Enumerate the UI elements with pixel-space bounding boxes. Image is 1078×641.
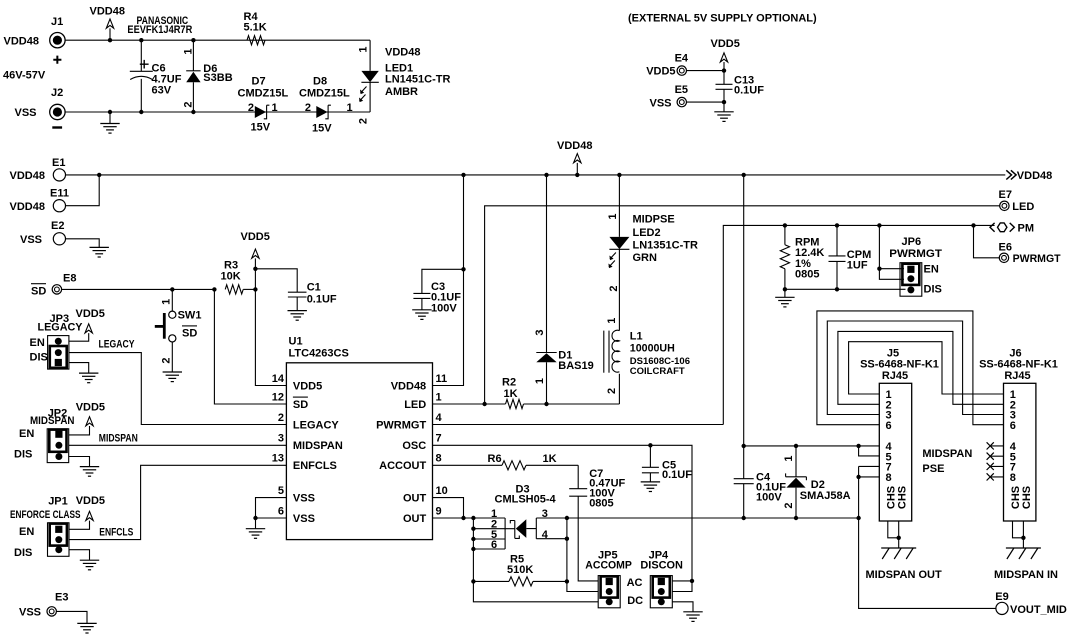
wire E5 to C13 [687, 100, 727, 104]
svg-text:VSS: VSS [20, 234, 42, 246]
svg-text:C1: C1 [307, 281, 321, 293]
wire loop J5 pin1 to J6 pin1 [849, 342, 1004, 394]
svg-text:CMDZ15L: CMDZ15L [299, 88, 350, 100]
power VDD5 arrow JP1 [69, 495, 105, 529]
wire ENFCLS net to U1 pin13 [69, 465, 286, 539]
svg-text:4: 4 [436, 412, 443, 424]
svg-text:PM: PM [1018, 223, 1035, 235]
turret E7 [999, 189, 1035, 213]
svg-text:2: 2 [783, 502, 795, 508]
wire bottom rail J2 to LED1 [65, 111, 370, 113]
svg-text:RJ45: RJ45 [882, 370, 908, 382]
svg-text:9: 9 [436, 505, 442, 517]
svg-text:U1: U1 [289, 336, 303, 348]
svg-text:VDD48: VDD48 [1017, 170, 1052, 182]
svg-text:5.1K: 5.1K [244, 22, 267, 34]
svg-text:3: 3 [278, 433, 284, 445]
svg-text:EN: EN [19, 428, 34, 440]
svg-text:DIS: DIS [30, 351, 48, 363]
svg-text:OUT: OUT [403, 493, 427, 505]
resistor RPM [780, 225, 824, 289]
svg-text:LEGACY: LEGACY [293, 419, 340, 431]
svg-text:E3: E3 [55, 591, 68, 603]
ground below C13 [714, 102, 733, 121]
svg-text:SD: SD [31, 286, 46, 298]
svg-text:1: 1 [534, 378, 546, 384]
capacitor C5 [641, 445, 693, 491]
svg-text:(EXTERNAL 5V SUPPLY OPTIONAL): (EXTERNAL 5V SUPPLY OPTIONAL) [628, 13, 817, 25]
svg-text:6: 6 [491, 539, 497, 551]
svg-text:1: 1 [606, 318, 618, 324]
chassis ground J6 [994, 521, 1058, 581]
ground E3 [56, 611, 96, 633]
svg-text:GRN: GRN [633, 252, 658, 264]
resistor R6 [488, 453, 579, 470]
wire VDD48 main rail [66, 173, 1006, 177]
turret E6 [999, 242, 1061, 265]
svg-text:ACCOMP: ACCOMP [585, 560, 632, 572]
ground JP4 [672, 602, 702, 622]
svg-text:MIDSPAN OUT: MIDSPAN OUT [866, 569, 942, 581]
svg-text:1: 1 [436, 391, 442, 403]
svg-text:COILCRAFT: COILCRAFT [630, 366, 685, 377]
turret E1 [10, 157, 66, 182]
svg-text:VDD5: VDD5 [76, 308, 105, 320]
svg-text:MIDSPAN: MIDSPAN [99, 432, 138, 444]
svg-text:E2: E2 [51, 220, 64, 232]
svg-text:13: 13 [272, 453, 284, 465]
op-amp U1 [272, 336, 448, 540]
wire JP6 EN branch [877, 225, 904, 279]
wire PM rail [723, 223, 994, 424]
svg-text:DISCON: DISCON [640, 560, 683, 572]
svg-text:8: 8 [436, 453, 442, 465]
wire MIDSPAN net to U1 pin3 [69, 432, 287, 445]
svg-text:5: 5 [278, 485, 284, 497]
wire VDD5 to U1 pin14 [255, 289, 286, 385]
svg-text:15V: 15V [251, 122, 271, 134]
jumper JP5 [585, 550, 632, 608]
svg-text:SMAJ58A: SMAJ58A [800, 490, 851, 502]
svg-text:VDD5: VDD5 [646, 66, 675, 78]
svg-text:RJ45: RJ45 [1004, 370, 1030, 382]
turret E9 [995, 591, 1067, 616]
wire U1 pin8 ACCOUT [433, 464, 503, 466]
power VDD5 arrow JP3 [69, 308, 105, 341]
svg-text:2: 2 [305, 102, 311, 114]
svg-text:VDD48: VDD48 [385, 46, 420, 58]
wire U1 pin9 OUT left segment [433, 516, 506, 520]
svg-text:J1: J1 [51, 16, 63, 28]
wire RPM/CPM ground rail to JP6 [783, 287, 906, 291]
turret E4 [646, 52, 689, 77]
diode D3 [471, 483, 598, 601]
wire top rail J1 to LED1 [65, 39, 370, 41]
wire JP4 to OSC net [672, 579, 694, 592]
svg-text:100V: 100V [431, 303, 457, 315]
power VDD5 arrow [711, 38, 740, 70]
wire J5 7/8 to OUT rail and E9 [856, 466, 996, 608]
svg-text:3: 3 [534, 329, 546, 335]
svg-text:1: 1 [347, 102, 353, 114]
svg-text:15V: 15V [312, 123, 332, 135]
svg-text:LTC4263CS: LTC4263CS [289, 347, 349, 359]
power VDD5 arrow above R3 [241, 231, 270, 290]
svg-text:0805: 0805 [589, 497, 613, 509]
svg-text:1UF: 1UF [847, 259, 868, 271]
svg-text:1: 1 [358, 46, 370, 52]
svg-text:EEVFK1J4R7R: EEVFK1J4R7R [127, 24, 192, 36]
svg-text:LED2: LED2 [633, 227, 661, 239]
capacitor C4 [734, 446, 787, 518]
svg-text:1K: 1K [543, 453, 557, 465]
svg-text:CMDZ15L: CMDZ15L [238, 88, 289, 100]
jumper JP2 [14, 407, 75, 462]
svg-text:LEGACY: LEGACY [99, 338, 136, 350]
svg-text:2: 2 [606, 388, 618, 394]
svg-text:SW1: SW1 [178, 310, 202, 322]
power VDD48 arrow top [90, 5, 125, 42]
svg-text:VDD48: VDD48 [90, 5, 125, 17]
svg-text:7: 7 [436, 433, 442, 445]
svg-text:11: 11 [436, 373, 448, 385]
wire U1 VSS pins to ground [253, 498, 286, 521]
capacitor CPM [829, 225, 872, 289]
svg-text:ENFCLS: ENFCLS [99, 526, 133, 538]
svg-text:JP6: JP6 [902, 236, 922, 248]
svg-text:BAS19: BAS19 [558, 360, 593, 372]
svg-text:E5: E5 [675, 84, 688, 96]
wire OUT right rail [567, 516, 861, 520]
chassis ground J5 [866, 521, 942, 581]
svg-text:2: 2 [278, 412, 284, 424]
svg-text:2: 2 [183, 101, 195, 107]
svg-text:R2: R2 [502, 376, 516, 388]
offpage PM connector [990, 223, 1034, 235]
LED LED2 [607, 173, 698, 317]
svg-text:CHS: CHS [1021, 486, 1033, 509]
jumper JP4 [640, 550, 683, 608]
svg-text:1: 1 [161, 299, 173, 305]
ground at J2 rail [100, 110, 119, 133]
label MIDSPAN PSE [922, 448, 972, 475]
resistor R5 [471, 554, 567, 586]
connector J1 [3, 16, 65, 81]
svg-text:LED: LED [404, 399, 426, 411]
svg-text:10: 10 [436, 485, 448, 497]
svg-text:ENFCLS: ENFCLS [293, 460, 337, 472]
wire E2 to ground [66, 239, 109, 257]
svg-text:2: 2 [161, 357, 173, 363]
svg-text:VDD48: VDD48 [10, 170, 45, 182]
svg-text:63V: 63V [152, 85, 172, 97]
svg-text:PWRMGT: PWRMGT [889, 248, 942, 260]
wire E6 to PM rail [974, 225, 1000, 257]
svg-text:DIS: DIS [14, 449, 32, 461]
svg-text:12: 12 [272, 391, 284, 403]
ground JP3 [69, 363, 99, 383]
ground U1 VSS [246, 518, 265, 538]
svg-text:100V: 100V [756, 492, 782, 504]
svg-text:VDD48: VDD48 [4, 35, 39, 47]
svg-text:2: 2 [248, 102, 254, 114]
svg-text:E8: E8 [63, 272, 76, 284]
svg-text:EN: EN [19, 526, 34, 538]
svg-text:VDD5: VDD5 [76, 401, 105, 413]
svg-text:46V-57V: 46V-57V [3, 70, 46, 82]
power VDD48 arrow center [557, 140, 592, 177]
svg-text:1: 1 [272, 102, 278, 114]
diode D6 [183, 38, 233, 114]
turret E5 [650, 84, 689, 109]
wire U1 pin4 PWRMGT [433, 424, 724, 426]
svg-text:J2: J2 [51, 87, 63, 99]
svg-text:E7: E7 [999, 189, 1012, 201]
inductor L1 [604, 317, 690, 404]
svg-text:6: 6 [278, 505, 284, 517]
label AC DC [627, 577, 644, 607]
zener D8 [299, 75, 353, 134]
svg-text:VDD5: VDD5 [76, 495, 105, 507]
diode D2 [783, 446, 851, 518]
svg-text:CHS: CHS [897, 486, 909, 509]
svg-text:0805: 0805 [795, 269, 819, 281]
ground JP2 [69, 457, 100, 477]
svg-text:510K: 510K [507, 564, 533, 576]
svg-text:JP1: JP1 [48, 496, 68, 508]
turret E2 [20, 220, 66, 246]
svg-text:S3BB: S3BB [203, 72, 232, 84]
svg-text:VSS: VSS [293, 513, 315, 525]
svg-text:D8: D8 [313, 75, 327, 87]
svg-text:CMLSH05-4: CMLSH05-4 [495, 493, 557, 505]
capacitor C1 [255, 269, 337, 320]
svg-text:0.1UF: 0.1UF [734, 84, 764, 96]
svg-text:DIS: DIS [14, 547, 32, 559]
svg-text:ENFORCE CLASS: ENFORCE CLASS [10, 509, 81, 521]
wire loop J5 pin2 to J6 pin2 [838, 331, 1004, 404]
svg-text:E1: E1 [52, 157, 65, 169]
svg-text:E6: E6 [999, 242, 1012, 254]
svg-text:VDD48: VDD48 [557, 140, 592, 152]
turret E8 [31, 272, 76, 297]
svg-text:J6: J6 [1009, 347, 1021, 359]
svg-text:AMBR: AMBR [385, 86, 418, 98]
svg-text:VDD48: VDD48 [10, 201, 45, 213]
wire U1 pin10 to pin9 [433, 498, 466, 521]
svg-text:VSS: VSS [15, 107, 37, 119]
svg-text:VSS: VSS [293, 493, 315, 505]
wire J5 pin5 stub [859, 446, 880, 456]
svg-text:2: 2 [358, 118, 370, 124]
svg-text:MIDSPAN IN: MIDSPAN IN [994, 569, 1058, 581]
wire SD net [62, 287, 217, 291]
capacitor C3 [412, 269, 463, 319]
svg-text:LN1451C-TR: LN1451C-TR [385, 74, 450, 86]
svg-text:VDD5: VDD5 [293, 381, 322, 393]
svg-text:VDD48: VDD48 [391, 381, 426, 393]
svg-text:8: 8 [886, 472, 892, 484]
svg-text:MIDPSE: MIDPSE [633, 213, 675, 225]
svg-text:0.1UF: 0.1UF [307, 294, 337, 306]
jumper JP6 [889, 236, 942, 296]
connector J5 [860, 347, 939, 521]
svg-text:E9: E9 [995, 591, 1008, 603]
svg-text:3: 3 [542, 508, 548, 520]
svg-text:EN: EN [924, 264, 939, 276]
zener D7 [238, 75, 289, 133]
svg-text:D7: D7 [252, 75, 266, 87]
wire D3 anode junction down to JP5 [565, 516, 599, 592]
svg-text:MIDSPAN: MIDSPAN [30, 415, 75, 427]
svg-text:SD: SD [182, 327, 197, 339]
offpage VDD48 arrow right [1006, 170, 1052, 182]
svg-text:PSE: PSE [922, 463, 944, 475]
wire U1 pin1 LED net [433, 402, 506, 406]
svg-text:VDD5: VDD5 [241, 231, 270, 243]
svg-text:VOUT_MID: VOUT_MID [1010, 604, 1067, 616]
svg-text:OSC: OSC [402, 440, 426, 452]
wire loop J5 pin6 to J6 pin6 [817, 311, 1004, 425]
wire U1 pin11 to VDD48 rail [433, 173, 466, 386]
svg-text:1: 1 [783, 455, 795, 461]
resistor R4 [244, 11, 267, 45]
wire LED rail to E7 [485, 206, 1000, 404]
svg-text:E11: E11 [50, 188, 69, 200]
svg-text:1: 1 [607, 213, 619, 219]
capacitor C6 [127, 15, 192, 114]
svg-text:LED: LED [1012, 201, 1034, 213]
svg-text:1K: 1K [504, 388, 518, 400]
svg-text:0.1UF: 0.1UF [431, 291, 461, 303]
svg-text:10000UH: 10000UH [630, 343, 675, 355]
svg-text:PWRMGT: PWRMGT [1013, 253, 1061, 265]
ground RPM CPM [775, 289, 794, 307]
capacitor C13 [716, 71, 765, 103]
svg-text:10K: 10K [221, 270, 241, 282]
svg-text:LEGACY: LEGACY [38, 322, 84, 334]
svg-text:LED1: LED1 [385, 63, 413, 75]
svg-text:LN1351C-TR: LN1351C-TR [633, 240, 698, 252]
svg-text:PWRMGT: PWRMGT [376, 419, 426, 431]
turret E3 [19, 591, 68, 618]
svg-text:14: 14 [272, 373, 285, 385]
svg-text:AC: AC [627, 577, 643, 589]
svg-text:1: 1 [183, 48, 195, 54]
svg-text:8: 8 [1010, 472, 1016, 484]
wire E4 to C13 [687, 68, 727, 72]
power VDD5 arrow JP2 [69, 401, 105, 435]
ground below SW1 [163, 342, 182, 382]
no-connect X marks J6 [987, 442, 1004, 480]
svg-text:L1: L1 [630, 330, 643, 342]
wire LEGACY net to U1 pin2 [69, 338, 287, 424]
connector J6 [979, 347, 1058, 521]
connector J2 [15, 87, 66, 128]
svg-text:2: 2 [608, 285, 620, 291]
capacitor C7 [569, 465, 625, 581]
turret E11 [10, 188, 69, 213]
svg-text:DC: DC [627, 595, 643, 607]
svg-text:VDD5: VDD5 [711, 38, 740, 50]
resistor R2 [502, 376, 619, 408]
svg-text:E4: E4 [675, 52, 689, 64]
svg-text:VSS: VSS [19, 607, 41, 619]
svg-text:SD: SD [293, 399, 308, 411]
wire loop J5 pin3 to J6 pin3 [827, 321, 1003, 415]
svg-text:J5: J5 [887, 347, 899, 359]
jumper JP1 [10, 496, 81, 559]
ground JP1 [69, 550, 99, 570]
svg-text:MIDSPAN: MIDSPAN [922, 448, 972, 460]
wire U1 pin7 OSC [433, 443, 693, 581]
wire SD to U1 pin12 [214, 289, 286, 404]
switch SW1 [155, 289, 202, 363]
svg-text:4: 4 [542, 529, 549, 541]
svg-text:SS-6468-NF-K1: SS-6468-NF-K1 [979, 359, 1058, 371]
svg-text:ACCOUT: ACCOUT [379, 460, 426, 472]
svg-text:VSS: VSS [650, 97, 672, 109]
svg-text:R6: R6 [488, 453, 502, 465]
svg-text:MIDSPAN: MIDSPAN [293, 440, 343, 452]
resistor R3 [221, 260, 258, 294]
jumper JP3 [30, 313, 84, 369]
LED LED1 [358, 40, 451, 124]
wire E11 to rail [66, 175, 100, 206]
svg-text:0.1UF: 0.1UF [662, 469, 692, 481]
diode D1 [534, 173, 594, 404]
wire VDD48 drop to J5 4/5 [742, 173, 880, 448]
svg-text:6: 6 [1010, 420, 1016, 432]
svg-text:SS-6468-NF-K1: SS-6468-NF-K1 [860, 359, 939, 371]
svg-text:DIS: DIS [924, 284, 942, 296]
svg-text:EN: EN [30, 337, 45, 349]
svg-text:6: 6 [886, 420, 892, 432]
svg-text:OUT: OUT [403, 513, 427, 525]
